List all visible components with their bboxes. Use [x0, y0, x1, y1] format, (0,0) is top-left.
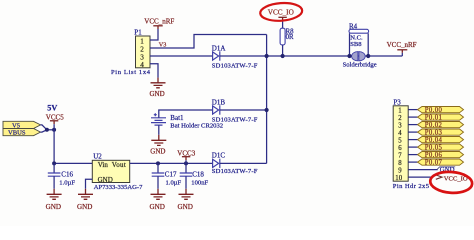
- capacitor C17: [152, 163, 165, 194]
- annotation red circle around VCC_IO: [260, 2, 303, 22]
- svg-text:P0.02: P0.02: [425, 122, 443, 129]
- svg-text:V3: V3: [159, 42, 167, 49]
- svg-text:D1B: D1B: [212, 99, 226, 107]
- svg-text:P1: P1: [134, 28, 142, 36]
- svg-text:4: 4: [398, 130, 402, 137]
- svg-text:Bat Holder CR2032: Bat Holder CR2032: [170, 123, 223, 130]
- power VCC_IO (pin 10 label): [436, 175, 468, 183]
- svg-text:P0.04: P0.04: [425, 137, 443, 144]
- svg-text:P0.06: P0.06: [425, 152, 443, 159]
- solderbridge pads: [352, 52, 366, 61]
- wire P3.6: [408, 146, 417, 148]
- port P0.02: [418, 122, 464, 129]
- wire P1.2 up-over to cathode bus: [150, 35, 267, 49]
- svg-text:Bat1: Bat1: [170, 114, 184, 122]
- annotation red circle around VCC_IO (bottom): [430, 171, 473, 195]
- svg-text:VCC_nRF: VCC_nRF: [144, 17, 174, 25]
- svg-text:GND: GND: [46, 203, 61, 211]
- wire junction to VCC5 stem: [47, 129, 54, 131]
- svg-text:VCC_nRF: VCC_nRF: [387, 41, 417, 49]
- port P0.01: [418, 114, 464, 121]
- svg-text:7: 7: [398, 152, 402, 159]
- wire VBUS to junction: [41, 130, 47, 132]
- svg-text:1: 1: [398, 107, 401, 114]
- connector P1: [136, 36, 151, 69]
- resistor R4 (solderbridge): [349, 29, 369, 56]
- diode D1C: [213, 159, 220, 168]
- svg-text:9: 9: [398, 167, 402, 174]
- capacitor C18: [180, 163, 193, 194]
- svg-text:Pin Hdr 2x5: Pin Hdr 2x5: [393, 183, 430, 190]
- svg-text:1.0µF: 1.0µF: [166, 179, 182, 186]
- svg-text:2: 2: [140, 45, 144, 53]
- svg-text:4: 4: [140, 61, 144, 69]
- port P0.05: [418, 144, 464, 151]
- svg-text:Vout: Vout: [112, 161, 126, 169]
- svg-text:SD103ATW-7-F: SD103ATW-7-F: [212, 168, 258, 175]
- wire D1B cathode to bus: [220, 109, 267, 111]
- svg-text:D1C: D1C: [212, 152, 226, 160]
- wire V5 to junction: [41, 125, 47, 130]
- svg-text:GND: GND: [150, 203, 165, 211]
- wire P1.3 to D1A: [150, 55, 213, 57]
- node R4 left junction: [347, 54, 351, 58]
- battery Bat1: [151, 113, 166, 125]
- svg-text:100nF: 100nF: [191, 179, 208, 186]
- node C16 junction: [52, 161, 56, 165]
- svg-text:Pin List 1x4: Pin List 1x4: [111, 69, 151, 76]
- svg-text:0R: 0R: [286, 34, 294, 41]
- svg-text:C16: C16: [61, 171, 73, 179]
- ground (below P1): [150, 83, 166, 98]
- wire P3.7: [408, 154, 417, 156]
- node junction VBUS: [52, 128, 56, 132]
- svg-text:VBUS: VBUS: [8, 130, 26, 137]
- port P0.07: [418, 159, 464, 166]
- wire D1C cathode to bus: [220, 162, 267, 164]
- ground (below C18): [178, 194, 194, 211]
- port P0.04: [418, 137, 464, 144]
- wire battery to D1B: [159, 110, 213, 118]
- ground (below C16): [46, 194, 62, 211]
- svg-text:Solderbridge: Solderbridge: [343, 61, 377, 68]
- wire P3.2: [408, 116, 417, 118]
- diode D1A: [213, 51, 220, 60]
- port P0.03: [418, 129, 464, 136]
- wire P3.10: [408, 176, 432, 178]
- wire battery negative to GND: [158, 125, 160, 135]
- power VCC5: [46, 113, 64, 121]
- svg-text:GND: GND: [150, 148, 165, 156]
- svg-text:5V: 5V: [47, 103, 57, 112]
- node C17 junction: [156, 161, 160, 165]
- node R4 right junction: [366, 54, 370, 58]
- wire P3.9: [408, 169, 438, 171]
- svg-text:SD103ATW-7-F: SD103ATW-7-F: [212, 62, 258, 69]
- port VBUS: [3, 129, 41, 137]
- svg-text:GND: GND: [98, 176, 113, 184]
- node bus-D1B junction: [265, 108, 269, 112]
- svg-text:5: 5: [398, 137, 402, 144]
- wire P1.1 to VCC_nRF: [150, 29, 158, 40]
- node bus-D1A junction: [265, 54, 269, 58]
- svg-text:1.0µF: 1.0µF: [59, 179, 75, 186]
- svg-text:P0.03: P0.03: [425, 129, 443, 136]
- wire D1A cathode to bus: [220, 55, 402, 57]
- wire Vin rail: [54, 162, 92, 164]
- wire P3.4: [408, 131, 417, 133]
- svg-text:R4: R4: [349, 22, 358, 30]
- svg-text:P3: P3: [393, 99, 401, 107]
- svg-text:VCC_IO: VCC_IO: [444, 176, 468, 183]
- port P0.00: [418, 107, 464, 114]
- svg-text:SB8: SB8: [350, 41, 362, 48]
- svg-text:P0.01: P0.01: [425, 114, 442, 121]
- resistor R8: [280, 17, 285, 56]
- wire cathode bus vertical: [266, 35, 268, 164]
- wire P3.3: [408, 124, 417, 126]
- svg-text:6: 6: [398, 145, 402, 152]
- node C18 junction: [184, 161, 188, 165]
- svg-text:C17: C17: [165, 171, 177, 179]
- wire P3.5: [408, 139, 417, 141]
- svg-text:3: 3: [398, 122, 402, 129]
- power VCC_nRF (left): [144, 17, 174, 26]
- svg-text:VCC_IO: VCC_IO: [268, 8, 294, 16]
- svg-text:10: 10: [395, 175, 402, 182]
- regulator U2: [92, 160, 129, 184]
- svg-text:C18: C18: [192, 171, 204, 179]
- port V5: [3, 121, 41, 129]
- svg-text:GND: GND: [77, 203, 92, 211]
- svg-text:8: 8: [398, 160, 402, 167]
- wire Vout rail: [130, 162, 213, 164]
- svg-text:2: 2: [398, 115, 402, 122]
- power VCC_nRF (right): [387, 41, 417, 56]
- ground (below C17): [150, 194, 166, 211]
- power GND (pin 9 label): [437, 167, 455, 174]
- svg-text:Vin: Vin: [98, 161, 109, 169]
- ground (below battery): [150, 140, 166, 155]
- svg-text:P0.00: P0.00: [425, 107, 443, 114]
- capacitor C16: [48, 163, 61, 194]
- wire P3.8: [408, 161, 417, 163]
- wire P1.4 to GND: [150, 64, 158, 78]
- svg-text:GND: GND: [150, 90, 165, 98]
- connector P3: [393, 106, 408, 182]
- diode D1B: [213, 105, 220, 114]
- svg-text:P0.05: P0.05: [425, 144, 443, 151]
- svg-text:GND: GND: [178, 203, 193, 211]
- node junction V5: [45, 128, 49, 132]
- wire U2 GND pin to ground: [86, 179, 93, 189]
- svg-text:AP7333-335AG-7: AP7333-335AG-7: [94, 184, 143, 191]
- power VCC_IO (top): [268, 8, 294, 17]
- wire P3.1: [408, 109, 417, 111]
- svg-text:D1A: D1A: [212, 44, 226, 52]
- ground (below U2): [77, 194, 93, 211]
- node R8 junction: [281, 54, 285, 58]
- power VCC3: [177, 149, 195, 163]
- svg-text:SD103ATW-7-F: SD103ATW-7-F: [212, 116, 258, 123]
- svg-text:U2: U2: [93, 152, 102, 160]
- port P0.06: [418, 152, 464, 159]
- svg-text:P0.07: P0.07: [425, 159, 443, 166]
- wire VCC5 down to Vin rail: [53, 121, 55, 124]
- svg-text:1: 1: [140, 37, 144, 45]
